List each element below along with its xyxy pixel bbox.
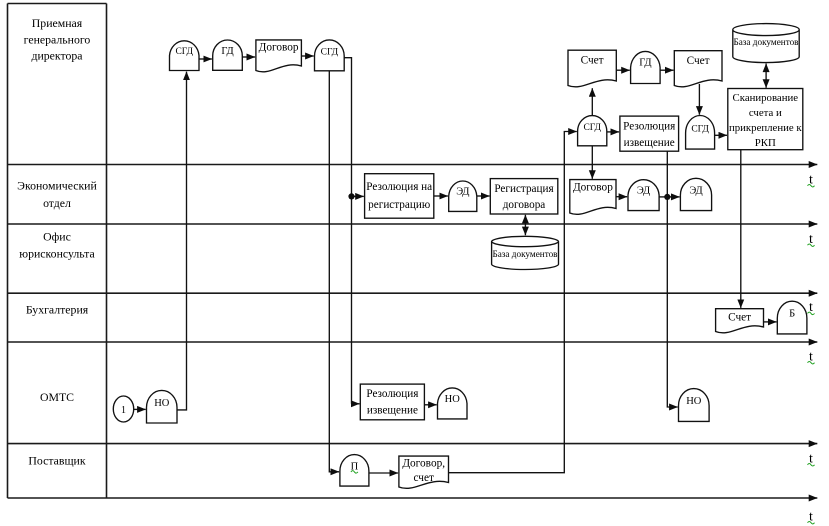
wire Регистрация договора to База документов both-way: [524, 215, 526, 235]
actor shape U6 СГД scanning: [686, 116, 715, 150]
svg-text:Счет: Счет: [581, 55, 604, 67]
wire СГД4 to Сканирование box: [715, 134, 727, 136]
timeline axis lane 5: [8, 443, 818, 445]
svg-text:Счет: Счет: [728, 312, 751, 324]
timeline axis lane 4: [8, 341, 818, 343]
svg-text:Бухгалтерия: Бухгалтерия: [26, 303, 89, 317]
wire branch dot to ЭД3: [667, 196, 679, 198]
svg-text:База документов: База документов: [733, 37, 799, 47]
svg-text:Б: Б: [789, 309, 795, 320]
document D6 Договор счет supplier: [399, 456, 449, 488]
actor shape U3 СГД after contract: [315, 40, 345, 71]
svg-text:РКП: РКП: [755, 137, 776, 149]
wire Счет2 down to СГД4: [698, 84, 700, 115]
actor shape U7 ЭД economics 1: [449, 181, 477, 211]
wire Резолюция на регистрацию to ЭД1: [434, 195, 448, 197]
swimlane frame top border: [8, 3, 107, 5]
timeline axis lane 3: [8, 292, 818, 294]
svg-text:отдел: отдел: [43, 196, 71, 210]
svg-text:СГД: СГД: [691, 124, 709, 134]
wire СГД3 up to Счет1: [591, 88, 593, 115]
database cylinder База документов middle: [492, 236, 559, 269]
svg-text:Сканирование: Сканирование: [733, 92, 799, 104]
svg-text:ОМТС: ОМТС: [40, 390, 74, 404]
svg-text:извещение: извещение: [624, 137, 675, 149]
document D4 Договор contract econ: [570, 180, 616, 215]
wire НО1 up to СГД1: [177, 72, 187, 410]
svg-text:договора: договора: [503, 199, 546, 211]
wire База документов to Сканирование both-way: [765, 64, 767, 88]
swimlane label column divider: [106, 4, 108, 499]
swimlane frame left border: [7, 4, 9, 499]
svg-text:Приемная: Приемная: [32, 16, 83, 30]
svg-text:ГД: ГД: [221, 46, 233, 57]
process box B4 Резолюция извещение (ОМТС): [360, 384, 424, 420]
start circle 1: [113, 396, 133, 422]
svg-text:юрисконсульта: юрисконсульта: [19, 247, 95, 261]
svg-text:СГД: СГД: [583, 123, 601, 133]
wire branch dot to Резолюция на регистрацию: [352, 195, 364, 197]
svg-text:НО: НО: [154, 398, 170, 409]
wire ЭД1 to Регистрация договора: [477, 195, 490, 197]
wire СГД3 down to Договор econ: [591, 146, 593, 179]
actor shape U4 ГД invoice: [631, 51, 661, 83]
wire arrow into Резолюция извещение ОМТС: [352, 403, 360, 405]
actor shape U9 ЭД economics 3: [680, 178, 711, 210]
svg-text:СГД: СГД: [175, 47, 193, 57]
document D2 Счет invoice 1: [568, 50, 616, 87]
svg-text:База документов: База документов: [492, 249, 558, 259]
svg-text:извещение: извещение: [367, 405, 418, 417]
timeline axis lane 2: [8, 223, 818, 225]
svg-text:НО: НО: [686, 396, 702, 407]
document D5 Счет invoice buh: [716, 309, 764, 333]
svg-text:Резолюция: Резолюция: [366, 388, 418, 400]
svg-text:счета и: счета и: [749, 107, 782, 119]
wire П to Договор счет: [369, 472, 398, 474]
svg-text:регистрацию: регистрацию: [368, 199, 430, 211]
wire Счет1 to ГД2: [616, 69, 630, 71]
wire СГД1 to ГД1: [199, 58, 212, 60]
actor shape U12 НО omts 2: [438, 388, 468, 419]
svg-text:1: 1: [121, 405, 126, 416]
wire Договор econ to ЭД2: [616, 196, 627, 198]
wire СГД2 bottom to П: [329, 71, 339, 472]
wire Договор to СГД2: [301, 55, 313, 57]
svg-text:ЭД: ЭД: [637, 186, 650, 197]
svg-text:ГД: ГД: [639, 58, 651, 69]
svg-text:Поставщик: Поставщик: [28, 454, 85, 468]
actor shape U11 НО omts 1: [147, 390, 178, 423]
wire СГД3 to Резолюция извещение: [607, 131, 619, 133]
svg-text:Экономический: Экономический: [17, 179, 97, 193]
svg-text:прикрепление к: прикрепление к: [729, 122, 802, 134]
svg-text:НО: НО: [445, 394, 461, 405]
actor shape U1 СГД secretary top-left: [170, 41, 200, 71]
svg-text:Резолюция: Резолюция: [623, 121, 675, 133]
wire СГД2 right side down trunk: [344, 58, 351, 404]
svg-text:директора: директора: [31, 49, 83, 63]
timeline axis lane 1: [8, 164, 818, 166]
process box B1 Резолюция на регистрацию: [365, 174, 434, 219]
process box B5 Сканирование счета и прикрепление к РКП: [728, 89, 803, 150]
wire Резолюция извещение ОМТС to НО2: [424, 404, 436, 406]
svg-text:Договор,: Договор,: [402, 458, 445, 470]
database cylinder База документов top-right: [733, 24, 799, 63]
wire Счет buh to Б: [764, 321, 777, 323]
svg-text:счет: счет: [413, 472, 433, 484]
actor shape U2 ГД director top-left: [213, 40, 243, 70]
wire circle 1 to НО1: [134, 408, 146, 410]
svg-text:ЭД: ЭД: [689, 186, 702, 197]
process box B2 Регистрация договора: [490, 179, 558, 214]
junction dot СГД2 trunk: [348, 193, 354, 199]
svg-text:СГД: СГД: [321, 48, 339, 58]
wire Договор счет supplier to СГД3 long loop: [449, 132, 577, 473]
timeline axis lane 6: [8, 497, 818, 499]
wire ГД2 to Счет2: [660, 69, 673, 71]
svg-text:Договор: Договор: [573, 182, 613, 194]
wire ГД1 to Договор: [242, 56, 255, 58]
svg-text:Регистрация: Регистрация: [494, 183, 553, 195]
document D3 Счет invoice 2: [674, 51, 722, 87]
svg-text:Резолюция на: Резолюция на: [366, 181, 432, 193]
actor shape U10 Б accountant: [777, 301, 807, 334]
actor shape U8 ЭД economics 2: [628, 180, 659, 211]
process box B3 Резолюция извещение (прием.): [620, 116, 679, 151]
svg-text:Офис: Офис: [43, 230, 71, 244]
svg-text:Договор: Договор: [259, 42, 299, 54]
actor shape U5 СГД resolution: [578, 116, 607, 146]
svg-text:генерального: генерального: [24, 33, 91, 47]
actor shape U14 П supplier: [340, 455, 369, 487]
junction dot Резолюция trunk: [664, 194, 670, 200]
wire Сканирование down to Счет buh: [740, 150, 742, 308]
wire ЭД2 to junction: [659, 196, 667, 198]
svg-text:ЭД: ЭД: [456, 187, 469, 198]
document D1 Договор contract top: [256, 40, 302, 72]
actor shape U13 НО omts 3: [679, 389, 710, 422]
wire Резолюция извещение down trunk to НО3: [667, 151, 677, 407]
svg-text:Счет: Счет: [687, 55, 710, 67]
